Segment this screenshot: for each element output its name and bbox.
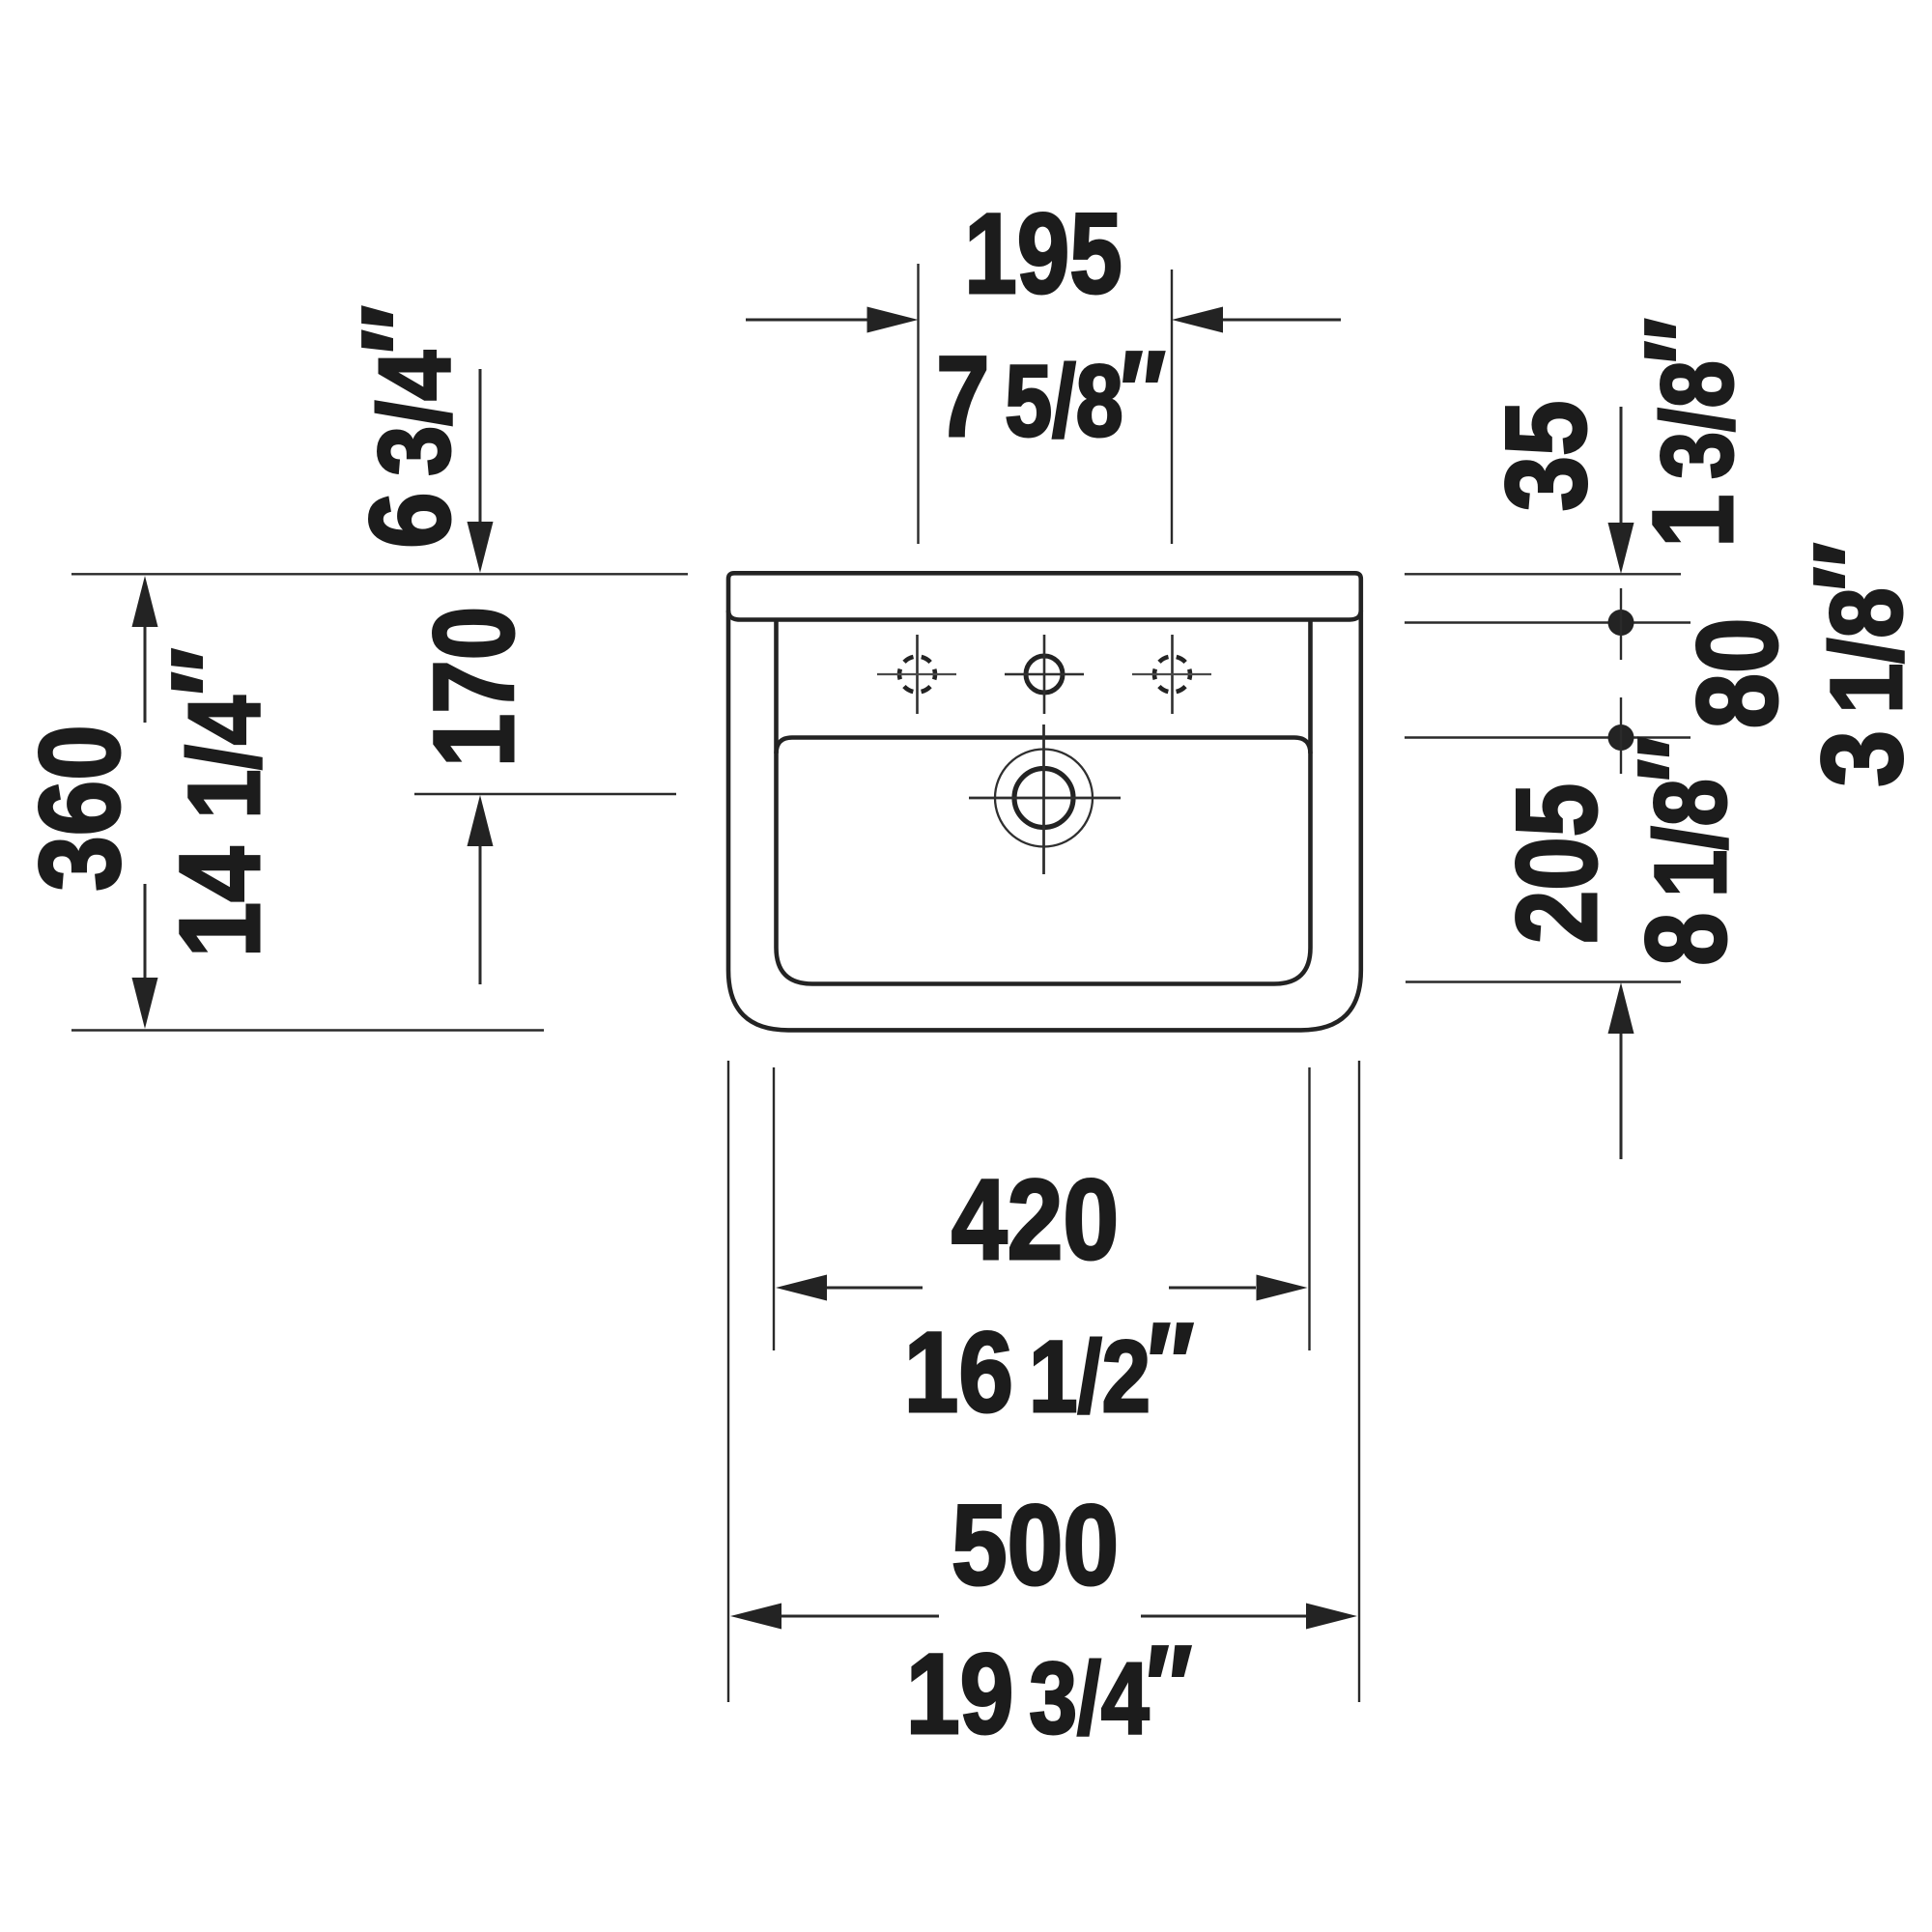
faucet hole right (dashed)	[1132, 635, 1211, 714]
dim label 14 1/4 inch (rotated)	[150, 648, 284, 958]
drain crosshair	[969, 724, 1121, 874]
svg-text:195: 195	[964, 189, 1122, 317]
svg-text:3 1/8″: 3 1/8″	[1791, 542, 1926, 786]
svg-text:80: 80	[1675, 618, 1802, 729]
dim 360 top arrow	[132, 576, 158, 723]
dim 500 right arrow	[1141, 1604, 1357, 1630]
dim 35/1 3/8 down arrow	[1608, 407, 1634, 574]
faucet hole left (dashed)	[877, 635, 956, 714]
right extension line rim level with dot	[1405, 588, 1690, 660]
dim 420 extension line left	[773, 1067, 775, 1350]
dim 195 extension line right	[1171, 270, 1173, 544]
basin top edge	[777, 738, 1311, 754]
svg-text:14 1/4″: 14 1/4″	[150, 648, 284, 958]
left extension line bottom (sink bottom level)	[71, 1029, 544, 1031]
dim 170/6 3/4 lower arrow (points up to drain level)	[468, 795, 494, 984]
right extension line basin top level with dot	[1405, 697, 1690, 774]
svg-text:6 3/4″: 6 3/4″	[338, 305, 473, 549]
dim label 6 3/4 inch (rotated)	[338, 305, 473, 549]
dim label 19 3/4 inch	[906, 1623, 1192, 1757]
svg-text:205: 205	[1493, 783, 1621, 944]
dim 420 left arrow	[776, 1275, 923, 1301]
dim 360 bottom arrow	[132, 884, 158, 1029]
dim label 170 (rotated)	[411, 607, 538, 767]
dim 205/8 1/8 up arrow	[1608, 982, 1634, 1159]
dim label 205 (rotated)	[1493, 783, 1621, 944]
sink outer outline	[728, 573, 1361, 1030]
dim 170/6 3/4 upper arrow (points down to sink top)	[468, 369, 494, 573]
faucet hole center	[1005, 635, 1084, 714]
sink rim inner edge line	[728, 611, 1361, 620]
dim 420 right arrow	[1169, 1275, 1308, 1301]
dim label 8 1/8 inch (rotated)	[1615, 736, 1750, 966]
drain outer circle	[995, 750, 1093, 847]
basin side walls and bottom	[777, 621, 1311, 984]
right extension line sink top level	[1405, 573, 1681, 575]
svg-text:19 3/4″: 19 3/4″	[906, 1623, 1192, 1757]
dim label 500	[952, 1481, 1119, 1609]
dim label 16 1/2 inch	[904, 1300, 1194, 1436]
drain inner circle	[1014, 769, 1073, 828]
right extension line basin bottom level	[1406, 980, 1681, 982]
dim label 195	[964, 189, 1122, 317]
dim label 80 (rotated)	[1675, 618, 1802, 729]
dim label 420	[952, 1155, 1119, 1284]
dim 195 extension line left	[917, 264, 919, 544]
svg-text:360: 360	[17, 724, 144, 891]
svg-text:35: 35	[1484, 401, 1610, 512]
dim 195 right arrow	[1172, 307, 1341, 333]
left extension line top (sink top level)	[71, 573, 688, 575]
dim label 1 3/8 inch (rotated)	[1622, 318, 1757, 548]
dim label 35 (rotated)	[1484, 401, 1610, 512]
dim 420 extension line right	[1308, 1067, 1310, 1350]
svg-text:500: 500	[952, 1481, 1119, 1609]
svg-text:8 1/8″: 8 1/8″	[1615, 736, 1750, 966]
svg-text:1 3/8″: 1 3/8″	[1622, 318, 1757, 548]
dim label 3 1/8 inch (rotated)	[1791, 542, 1926, 786]
dim 500 left arrow	[730, 1604, 939, 1630]
svg-text:170: 170	[411, 607, 538, 767]
dim 195 left arrow	[746, 307, 919, 333]
dim 500 extension line right	[1358, 1061, 1360, 1702]
left extension line drain level	[414, 793, 676, 795]
dim label 360 (rotated)	[17, 724, 144, 891]
svg-text:420: 420	[952, 1155, 1119, 1284]
dim label 7 5/8 inch	[936, 328, 1166, 461]
svg-text:16 1/2″: 16 1/2″	[904, 1300, 1194, 1436]
dim 500 extension line left	[727, 1061, 729, 1702]
svg-text:7 5/8″: 7 5/8″	[936, 328, 1166, 461]
